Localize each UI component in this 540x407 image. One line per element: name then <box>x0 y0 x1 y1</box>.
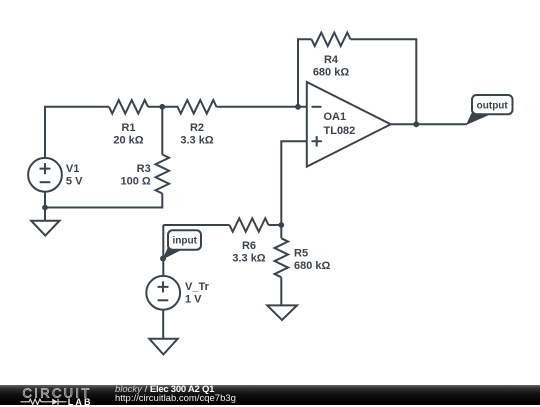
svg-text:R2: R2 <box>190 122 204 134</box>
svg-text:TL082: TL082 <box>324 125 356 137</box>
svg-text:V_Tr: V_Tr <box>185 281 210 293</box>
svg-text:5 V: 5 V <box>66 176 83 188</box>
svg-text:R1: R1 <box>121 122 135 134</box>
svg-text:input: input <box>172 235 197 246</box>
svg-text:OA1: OA1 <box>324 111 347 123</box>
svg-text:R3: R3 <box>137 163 151 175</box>
svg-text:1 V: 1 V <box>185 294 202 306</box>
svg-text:680 kΩ: 680 kΩ <box>294 260 331 272</box>
svg-text:V1: V1 <box>66 163 79 175</box>
svg-text:R4: R4 <box>324 54 339 66</box>
svg-text:680 kΩ: 680 kΩ <box>313 67 350 79</box>
svg-text:3.3 kΩ: 3.3 kΩ <box>180 135 213 147</box>
svg-text:100 Ω: 100 Ω <box>120 176 150 188</box>
svg-text:R5: R5 <box>294 248 308 260</box>
svg-text:LAB: LAB <box>68 397 93 407</box>
svg-text:R6: R6 <box>242 240 256 252</box>
svg-text:output: output <box>477 101 509 112</box>
svg-text:20 kΩ: 20 kΩ <box>113 135 143 147</box>
svg-text:3.3 kΩ: 3.3 kΩ <box>232 253 265 265</box>
